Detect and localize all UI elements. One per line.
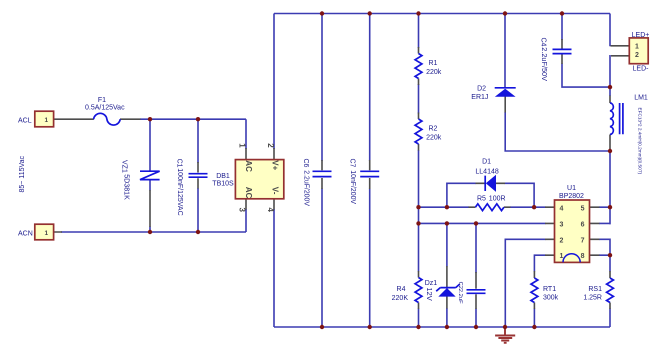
svg-text:4: 4 (560, 205, 564, 212)
svg-text:3: 3 (238, 208, 247, 213)
svg-text:C7: C7 (349, 159, 356, 168)
svg-text:C6: C6 (302, 159, 309, 168)
svg-text:LM1: LM1 (634, 94, 648, 101)
svg-text:12V: 12V (425, 287, 434, 300)
svg-text:LED-: LED- (633, 65, 650, 72)
svg-text:7: 7 (581, 237, 585, 244)
svg-text:V+: V+ (271, 160, 280, 170)
svg-text:F1: F1 (98, 97, 106, 104)
svg-text:Dz1: Dz1 (425, 280, 438, 287)
svg-text:LL4148: LL4148 (475, 168, 498, 175)
svg-text:6: 6 (581, 221, 585, 228)
svg-text:BP2802: BP2802 (559, 193, 584, 200)
svg-text:D1: D1 (482, 158, 491, 165)
svg-text:5: 5 (581, 205, 585, 212)
svg-text:EFC13*2 2.4mH(0.2mm)(0.50T): EFC13*2 2.4mH(0.2mm)(0.50T) (637, 108, 642, 175)
svg-text:2: 2 (266, 143, 275, 148)
svg-text:ACN: ACN (18, 230, 33, 237)
svg-text:85~ 115Vac: 85~ 115Vac (19, 155, 26, 192)
svg-text:C4: C4 (540, 38, 547, 47)
svg-text:R2: R2 (429, 126, 438, 133)
svg-text:2: 2 (635, 52, 639, 59)
svg-text:AC: AC (244, 187, 253, 199)
svg-text:R4: R4 (397, 286, 406, 293)
svg-text:LED+: LED+ (632, 32, 650, 39)
svg-text:100R: 100R (489, 195, 506, 202)
svg-text:1: 1 (44, 230, 48, 237)
svg-text:V-: V- (271, 187, 280, 195)
svg-text:AC: AC (244, 160, 253, 172)
svg-text:10nF/200V: 10nF/200V (349, 170, 356, 204)
svg-text:1: 1 (635, 43, 639, 50)
svg-text:8: 8 (581, 253, 585, 260)
svg-text:3: 3 (560, 221, 564, 228)
svg-text:1.25R: 1.25R (583, 294, 602, 301)
svg-text:4: 4 (266, 208, 275, 213)
svg-text:1: 1 (44, 117, 48, 124)
svg-text:TB10S: TB10S (212, 181, 234, 188)
svg-text:100nF/125VAC: 100nF/125VAC (176, 168, 183, 215)
svg-text:VZ1: VZ1 (121, 160, 128, 173)
svg-text:R1: R1 (429, 60, 438, 67)
svg-text:D2: D2 (477, 85, 486, 92)
svg-text:2.2uF/200V: 2.2uF/200V (303, 170, 310, 206)
svg-text:220k: 220k (426, 69, 442, 76)
svg-text:C1: C1 (176, 159, 183, 168)
svg-text:1: 1 (560, 253, 564, 260)
svg-text:220k: 220k (426, 134, 442, 141)
svg-text:RS1: RS1 (588, 286, 602, 293)
svg-text:ER1J: ER1J (471, 94, 488, 101)
svg-text:2.2uF: 2.2uF (457, 289, 463, 304)
svg-text:2.2uF/50V: 2.2uF/50V (540, 47, 549, 81)
svg-text:DB1: DB1 (216, 173, 230, 180)
svg-text:300k: 300k (543, 294, 559, 301)
svg-text:220K: 220K (392, 295, 409, 302)
svg-text:U1: U1 (567, 185, 576, 192)
svg-text:ACL: ACL (18, 118, 32, 125)
svg-text:0.5A/125Vac: 0.5A/125Vac (85, 105, 125, 112)
svg-text:R5: R5 (477, 195, 486, 202)
svg-text:5D381K: 5D381K (123, 174, 131, 200)
svg-text:1: 1 (238, 143, 247, 148)
svg-text:2: 2 (560, 237, 564, 244)
svg-text:RT1: RT1 (543, 286, 556, 293)
